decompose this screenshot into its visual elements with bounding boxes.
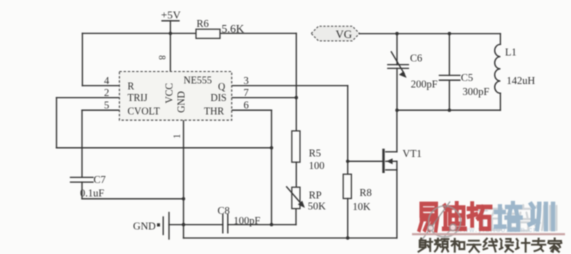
- svg-text:3: 3: [244, 76, 249, 87]
- wire VT1 source drop to rail: [396, 170, 398, 238]
- svg-text:5: 5: [104, 100, 109, 111]
- wire VT1 drain rise to tank: [396, 110, 398, 152]
- svg-text:CVOLT: CVOLT: [128, 107, 160, 118]
- node junction R8 on bottom rail: [346, 236, 349, 239]
- svg-text:5.6K: 5.6K: [222, 24, 245, 36]
- svg-text:RP: RP: [309, 191, 322, 202]
- node junction C6 top: [395, 32, 398, 35]
- wire C8 row right to RP corner: [228, 224, 296, 226]
- watermark underline: [412, 233, 565, 235]
- svg-text:1: 1: [172, 134, 182, 139]
- svg-text:VT1: VT1: [403, 149, 422, 160]
- svg-text:VCC: VCC: [165, 83, 176, 104]
- wire pin 6 lead: [232, 109, 272, 111]
- watermark bottom slogan row: [419, 238, 562, 251]
- svg-text:+5V: +5V: [161, 10, 181, 22]
- wire pin 7 lead: [232, 97, 297, 99]
- svg-text:0.1uF: 0.1uF: [80, 189, 104, 200]
- svg-text:GND: GND: [133, 222, 156, 233]
- wire pin 3 drop to gate/R8: [347, 86, 349, 175]
- wire left drop from rail to pin 4: [81, 33, 83, 85]
- wire pin2-pin6 link: [57, 147, 272, 149]
- node junction +5V on top rail: [169, 32, 172, 35]
- node junction link/pin6: [270, 146, 273, 149]
- wire +5V stem down to pin 8 (VCC): [169, 21, 171, 72]
- wire tank bottom rail: [397, 109, 501, 111]
- svg-text:7: 7: [244, 88, 249, 99]
- node junction GND/C8 row on pin1 vertical: [182, 223, 185, 226]
- wire pin 5 drop to C7: [81, 110, 83, 177]
- resistor R6: [196, 19, 245, 39]
- wire top rail right segment after R6: [220, 32, 296, 34]
- node junction pin7 vertical: [295, 96, 298, 99]
- node junction C5 top: [448, 32, 451, 35]
- svg-text:C7: C7: [94, 175, 106, 186]
- wire pin 4 lead: [82, 85, 119, 87]
- svg-text:100pF: 100pF: [234, 216, 261, 227]
- potentiometer RP: [287, 187, 327, 213]
- wire pin 1 drop (GND pin): [183, 120, 185, 238]
- wire pin 3 lead: [232, 85, 348, 87]
- wire pin 6 drop to C8: [271, 110, 273, 224]
- wire R5 to RP: [295, 162, 297, 187]
- watermark red glyph yi: [419, 203, 490, 230]
- wire bottom ground rail: [184, 237, 397, 239]
- wire C8 row left: [184, 224, 223, 226]
- resistor R8: [343, 174, 372, 213]
- wire R8 bottom to rail: [347, 199, 349, 239]
- svg-text:C6: C6: [410, 54, 422, 65]
- node junction C6/drain bottom: [395, 109, 398, 112]
- svg-text:300pF: 300pF: [463, 87, 490, 98]
- transistor VT1 (N-MOSFET): [384, 149, 422, 173]
- wire gate lead: [348, 160, 383, 162]
- svg-text:GND: GND: [177, 91, 188, 113]
- svg-text:L1: L1: [505, 47, 517, 58]
- svg-text:R: R: [128, 81, 135, 92]
- watermark red glyph di: [444, 203, 465, 228]
- watermark blue glyph pei: [496, 203, 553, 230]
- resistor R5: [292, 131, 325, 172]
- svg-text:THR: THR: [204, 107, 224, 118]
- watermark blue glyph xun: [530, 204, 553, 229]
- svg-text:50K: 50K: [308, 202, 327, 213]
- svg-text:DIS: DIS: [211, 93, 227, 104]
- wire C7 to pin1 vertical: [82, 198, 184, 200]
- power +5V symbol: [161, 10, 181, 22]
- watermark red glyph tuo: [469, 204, 491, 229]
- svg-text:C8: C8: [218, 206, 230, 217]
- capacitor C6 (variable): [388, 34, 438, 111]
- svg-text:2: 2: [104, 88, 109, 99]
- svg-text:R6: R6: [197, 19, 209, 30]
- wire C7 bottom drop: [81, 182, 83, 199]
- svg-text:142uH: 142uH: [507, 76, 536, 87]
- capacitor C5: [439, 34, 489, 111]
- node junction pin6 drop on C8 row: [270, 223, 273, 226]
- op-amp U1 : NE555 timer IC body: [119, 72, 231, 121]
- watermark logo circle: [422, 202, 461, 241]
- watermark grey ghost glyphs: [479, 205, 557, 231]
- svg-text:R8: R8: [360, 188, 372, 199]
- node junction C7 wire on pin1 vertical: [182, 197, 185, 200]
- wire pin 2 drop: [56, 98, 58, 148]
- wire pin 2 lead: [57, 97, 120, 99]
- svg-text:NE555: NE555: [184, 76, 212, 87]
- svg-text:TRIJ: TRIJ: [128, 93, 148, 104]
- svg-text:100: 100: [309, 161, 325, 172]
- capacitor C7: [71, 175, 106, 200]
- svg-text:8: 8: [157, 55, 167, 60]
- svg-text:10K: 10K: [353, 202, 372, 213]
- svg-text:R5: R5: [309, 148, 321, 159]
- node junction C5 bottom: [448, 109, 451, 112]
- node junction gate/R8: [346, 160, 349, 163]
- svg-text:4: 4: [104, 76, 110, 87]
- svg-text:200pF: 200pF: [411, 80, 438, 91]
- svg-text:VG: VG: [336, 29, 353, 41]
- wire vertical from rail down to R5 / pin 7: [295, 33, 297, 131]
- svg-text:Q: Q: [218, 82, 226, 93]
- wire top rail left segment: [82, 32, 196, 34]
- wire pin 5 lead: [82, 109, 119, 111]
- wire RP bottom drop: [295, 209, 297, 225]
- svg-text:6: 6: [244, 100, 249, 111]
- inductor L1: [495, 34, 536, 111]
- net label VG: [311, 26, 359, 41]
- ground GND symbol: [133, 213, 184, 240]
- wire tank top rail: [360, 33, 501, 35]
- svg-text:C5: C5: [461, 73, 473, 84]
- capacitor C8: [218, 206, 261, 233]
